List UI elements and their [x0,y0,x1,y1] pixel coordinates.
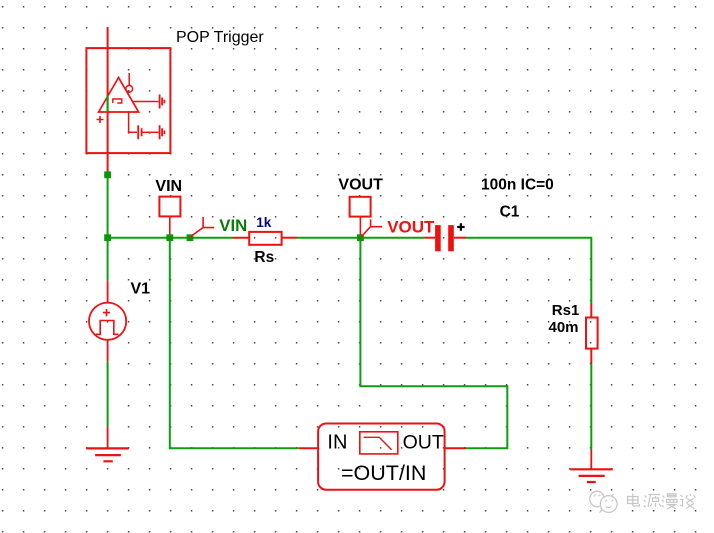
watermark text: 谈 [680,494,696,509]
resistor Rs1 body [586,318,598,349]
VIN net marker (flag) [190,217,214,237]
capacitor C1 plate 1 [435,225,441,251]
wire: junction down to main rail [107,178,109,238]
ground (right) bars [570,469,613,482]
resistor Rs body [249,232,281,245]
V1 lead top [107,281,109,303]
wire: Rs1 to ground [590,364,592,449]
feedback wire: VOUT node to divider OUT [360,241,507,448]
watermark text: 漫 [662,494,677,509]
resistor Rs lead left [233,237,249,239]
svg-text:40m: 40m [549,319,579,336]
svg-text:V1: V1 [131,281,151,298]
divider block lead IN [299,447,318,449]
plus sign of comparator [97,116,104,123]
internal output wire (down and right) [129,112,137,132]
junction: net-name marker attach [187,234,194,241]
divider filter icon curve [364,437,392,450]
internal ground symbol (upper) [160,95,165,109]
divider block lead OUT [445,447,466,449]
ground (left) bars [86,448,128,461]
capacitor polarity plus [457,223,464,230]
internal ground symbol (lower) [160,125,165,139]
divider filter icon box [360,432,398,454]
wire: rail junction down to V1 [107,238,109,281]
POP trigger box [86,48,170,153]
watermark text: 源 [644,495,661,508]
feedback wire: VIN node down to divider IN [170,241,299,448]
green input segment on comparator [107,96,109,112]
wire: trigger pin (red vertical) [107,27,109,175]
VIN probe stem [169,216,171,235]
svg-text:VIN: VIN [155,178,182,195]
svg-text:Rs: Rs [254,249,274,266]
capacitor C1 plate 2 [448,225,454,251]
VOUT probe stem [359,217,361,235]
divider block body [318,424,445,490]
svg-text:IN: IN [327,432,347,454]
svg-text:100n IC=0: 100n IC=0 [481,177,554,194]
hysteresis mark inside comparator [113,99,122,103]
VOUT probe square [350,197,371,217]
V1 plus sign [103,309,110,316]
resistor Rs1 lead bottom [590,349,592,364]
node: trigger output junction [104,171,111,178]
svg-text:VIN: VIN [219,216,247,235]
junction on main rail at V1 branch [104,234,111,241]
wire: rail between Rs and C1 [297,237,425,239]
internal wire to reference ground [133,101,159,103]
VOUT net marker (flag) [361,219,382,237]
V1 pulse waveform glyph [96,321,119,335]
svg-text:Rs1: Rs1 [552,302,580,319]
svg-text:VOUT: VOUT [338,177,383,194]
svg-text:OUT: OUT [403,432,444,454]
watermark logo bubbles [590,491,617,512]
wire: rail right section and down to Rs1 [466,238,591,303]
capacitor C1 lead left [425,237,436,239]
ground (right) stem [590,449,592,469]
svg-text:1k: 1k [256,215,272,230]
stub wire above bubble [128,73,130,85]
svg-text:C1: C1 [500,203,520,220]
capacitor C1 lead right [454,237,466,239]
internal wire battery to ground [143,131,159,133]
internal battery cell [138,125,141,139]
svg-text:=OUT/IN: =OUT/IN [341,461,426,485]
inversion bubble [126,85,133,92]
op-amp comparator triangle (inside POP trigger) [99,78,139,113]
V1 lead bottom [107,340,109,362]
resistor Rs1 lead top [590,303,592,318]
voltage source V1 circle [89,303,126,340]
junction: VIN probe on rail [166,234,173,241]
svg-text:VOUT: VOUT [387,218,435,237]
resistor Rs lead right [282,237,297,239]
junction: VOUT node [357,234,364,241]
ground (left) stem [107,426,109,448]
svg-text:POP Trigger: POP Trigger [176,29,264,46]
watermark text: 电 [628,494,640,507]
wire: V1 to ground [107,362,109,427]
VIN probe square [159,197,180,217]
wire: main rail (left green section) [107,237,233,239]
